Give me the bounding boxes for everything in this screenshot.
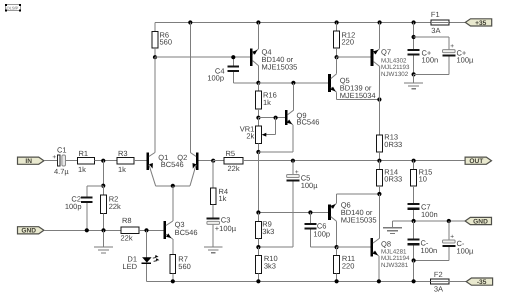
node R15 tap xyxy=(412,159,416,163)
resistor R15 xyxy=(411,161,433,203)
node Q6/Q8 base xyxy=(335,245,339,249)
svg-text:100µ: 100µ xyxy=(457,246,475,255)
capacitor C7 xyxy=(408,203,438,221)
svg-text:1k: 1k xyxy=(118,165,126,174)
svg-text:1k: 1k xyxy=(263,98,271,107)
wire input shunt vertical xyxy=(102,161,104,186)
svg-text:2k: 2k xyxy=(246,132,254,141)
wire output ground line xyxy=(393,220,466,222)
ground input xyxy=(94,230,113,253)
capacitor C+ 100n xyxy=(408,49,438,75)
resistor R3 xyxy=(117,149,134,174)
wire IN to C1 xyxy=(44,160,58,162)
node C7/C- gnd xyxy=(412,219,416,223)
node C+ top link xyxy=(412,35,416,39)
wire C+ node vertical xyxy=(413,23,415,49)
svg-text:F2: F2 xyxy=(434,270,443,279)
node R2 gnd xyxy=(101,228,105,232)
node R16 bottom xyxy=(256,116,260,120)
svg-text:100n: 100n xyxy=(422,56,439,65)
svg-text:MJE15035: MJE15035 xyxy=(341,216,377,225)
svg-text:560: 560 xyxy=(178,262,191,271)
capacitor C- 100n xyxy=(408,221,437,261)
svg-text:MJE15035: MJE15035 xyxy=(262,63,298,72)
svg-text:R5: R5 xyxy=(226,149,236,158)
tag +35 xyxy=(465,19,491,26)
node R9/R10/C5 xyxy=(256,245,260,249)
svg-text:100p: 100p xyxy=(313,230,330,239)
svg-text:Q8: Q8 xyxy=(381,240,391,249)
svg-text:R3: R3 xyxy=(118,149,128,158)
wire R6 to Q4 base xyxy=(155,56,250,58)
wire diff emitters xyxy=(156,185,190,187)
tag -35 xyxy=(466,278,492,285)
svg-text:1k: 1k xyxy=(219,194,227,203)
resistor R14 xyxy=(377,161,403,194)
transistor Q8 xyxy=(370,238,410,281)
wire R8 to Q3 base xyxy=(139,229,163,231)
node rail-Q4 xyxy=(256,20,260,24)
transistor Q5 xyxy=(328,57,379,100)
svg-text:560: 560 xyxy=(160,37,173,46)
transistor Q3 xyxy=(163,220,197,254)
node C4 tap xyxy=(231,55,235,59)
svg-text:OLSfP: OLSfP xyxy=(7,5,19,10)
wire F1 to +35 tag xyxy=(449,22,466,24)
wire R12 to Q7 base xyxy=(337,56,371,58)
node Q9 collector tap xyxy=(291,81,295,85)
transistor Q1 xyxy=(146,57,168,186)
svg-text:3A: 3A xyxy=(434,285,443,294)
node rail-R12 xyxy=(335,20,339,24)
node C-100u gnd xyxy=(447,219,451,223)
resistor R6 xyxy=(152,23,172,58)
node R14/Q6 xyxy=(377,192,381,196)
node diff emitters xyxy=(171,184,175,188)
node Q8 emitter xyxy=(377,279,381,283)
wire F2 to -35 tag xyxy=(449,280,466,282)
svg-text:100n: 100n xyxy=(421,246,438,255)
transistor Q6 xyxy=(328,194,379,247)
node R6 bottom xyxy=(153,55,157,59)
ground at output zobel xyxy=(383,221,402,234)
resistor R4 xyxy=(210,161,228,218)
svg-text:4.7µ: 4.7µ xyxy=(54,167,69,176)
resistor R10 xyxy=(256,247,278,281)
svg-text:BC546: BC546 xyxy=(175,228,198,237)
svg-text:+: + xyxy=(450,234,454,241)
node wiper tap xyxy=(274,116,278,120)
svg-text:220: 220 xyxy=(342,261,355,270)
transistor Q4 xyxy=(250,23,297,83)
svg-text:+35: +35 xyxy=(475,20,487,27)
resistor R2 xyxy=(101,186,121,231)
capacitor C4 xyxy=(207,57,258,83)
capacitor C5 xyxy=(258,161,318,247)
wire R1 to R3 xyxy=(95,160,117,162)
node C2 gnd xyxy=(85,228,89,232)
svg-text:-35: -35 xyxy=(477,279,487,286)
node R11 bottom xyxy=(335,279,339,283)
resistor R11 xyxy=(334,247,355,281)
svg-text:NJW1302: NJW1302 xyxy=(381,71,409,78)
node R10 bottom xyxy=(256,279,260,283)
node feedback R4 xyxy=(211,159,215,163)
capacitor C1 xyxy=(52,146,77,176)
svg-text:3k3: 3k3 xyxy=(262,227,274,236)
svg-text:IN: IN xyxy=(25,158,32,165)
wire to Q3 collector xyxy=(172,186,174,221)
capacitor C- 100u xyxy=(414,221,474,261)
node rail-Q7 xyxy=(378,20,382,24)
tag OUT xyxy=(465,157,491,164)
wire VAS node xyxy=(258,82,328,84)
resistor R5 xyxy=(213,149,243,173)
transistor Q2 xyxy=(161,153,214,186)
wire -35 rail xyxy=(147,280,431,282)
capacitor C2 xyxy=(65,186,103,231)
node Q4 emitter / R16 xyxy=(256,81,260,85)
resistor R8 xyxy=(121,216,140,243)
tag GND input xyxy=(18,227,44,234)
svg-text:10: 10 xyxy=(419,175,427,184)
svg-text:220: 220 xyxy=(342,37,355,46)
resistor R13 xyxy=(377,100,403,161)
wire R3 to Q1 base xyxy=(134,160,146,162)
svg-text:GND: GND xyxy=(473,218,488,225)
svg-text:+100µ: +100µ xyxy=(215,224,237,233)
wire output rail xyxy=(243,160,465,162)
capacitor C3 xyxy=(207,216,237,247)
resistor R12 xyxy=(334,23,356,58)
wire to Q8 collector xyxy=(378,194,380,238)
resistor R1 xyxy=(77,149,94,174)
node feedback tap input xyxy=(101,159,105,163)
svg-text:100n: 100n xyxy=(421,210,438,219)
wire R16 to Q9 base xyxy=(258,117,285,119)
svg-text:+: + xyxy=(52,154,56,161)
fuse F1 xyxy=(431,10,449,35)
capacitor C+ 100u xyxy=(414,37,474,74)
node C+ bottom link xyxy=(412,72,416,76)
node R12 bottom xyxy=(335,55,339,59)
svg-text:100µ: 100µ xyxy=(301,181,319,190)
svg-text:LED: LED xyxy=(122,262,137,271)
node bias left xyxy=(256,210,260,214)
tag IN xyxy=(18,157,44,164)
node R13/R14 xyxy=(377,159,381,163)
wire +35 rail xyxy=(155,22,431,24)
wire lower bias rail xyxy=(258,212,328,214)
node C5 tap xyxy=(291,159,295,163)
svg-text:BC546: BC546 xyxy=(161,160,184,169)
tag GND output xyxy=(465,217,491,224)
ground below C+ caps xyxy=(404,74,423,88)
ground below C3 xyxy=(204,246,223,248)
node rail-C+ xyxy=(412,20,416,24)
node R7 bottom xyxy=(171,279,175,283)
svg-text:C1: C1 xyxy=(57,146,67,155)
logo box xyxy=(5,4,21,12)
node Q5 emitter / R13 xyxy=(377,97,381,101)
svg-text:F1: F1 xyxy=(431,10,440,19)
transistor Q7 xyxy=(371,23,410,100)
wire to C+100u top xyxy=(414,36,449,38)
wire Q8 base xyxy=(337,246,371,248)
svg-text:Q7: Q7 xyxy=(381,48,391,57)
resistor R7 xyxy=(170,255,191,282)
resistor R9 xyxy=(256,213,275,248)
svg-text:3k3: 3k3 xyxy=(264,261,276,270)
svg-text:GND: GND xyxy=(21,228,36,235)
svg-text:3A: 3A xyxy=(431,26,440,35)
capacitor C6 xyxy=(305,213,337,248)
svg-text:OUT: OUT xyxy=(469,158,483,165)
node C- rail xyxy=(412,279,416,283)
node C- bottom xyxy=(412,258,416,262)
svg-text:R1: R1 xyxy=(79,149,89,158)
svg-text:100p: 100p xyxy=(65,202,82,211)
svg-text:100p: 100p xyxy=(207,74,224,83)
svg-text:1k: 1k xyxy=(78,165,86,174)
node VR1 bottom / Q9 emitter xyxy=(256,150,260,154)
diode D1 LED xyxy=(122,230,159,281)
fuse F2 xyxy=(430,270,449,294)
svg-text:22k: 22k xyxy=(109,202,121,211)
svg-text:100µ: 100µ xyxy=(457,56,475,65)
node C6 tap xyxy=(308,210,312,214)
trimpot VR1 xyxy=(240,118,276,152)
svg-text:+: + xyxy=(450,43,454,50)
wire GND line xyxy=(44,229,121,231)
wire to -35 rail xyxy=(413,261,415,282)
resistor R16 xyxy=(256,83,277,118)
svg-text:0R33: 0R33 xyxy=(384,140,402,149)
svg-text:0R33: 0R33 xyxy=(384,175,402,184)
transistor Q9 xyxy=(258,83,319,152)
svg-text:NJW3281: NJW3281 xyxy=(381,262,409,269)
svg-text:BC546: BC546 xyxy=(297,117,320,126)
svg-text:+: + xyxy=(295,169,299,176)
node rail-Q2 xyxy=(188,20,192,24)
svg-text:22k: 22k xyxy=(121,234,133,243)
node C2/R2 xyxy=(101,184,105,188)
svg-text:MJE15034: MJE15034 xyxy=(340,91,376,100)
svg-text:R8: R8 xyxy=(122,216,132,225)
wire bias chain down xyxy=(257,152,259,213)
svg-text:22k: 22k xyxy=(228,164,240,173)
wire Q2 collector xyxy=(189,23,191,153)
node D1 tap xyxy=(144,228,148,232)
